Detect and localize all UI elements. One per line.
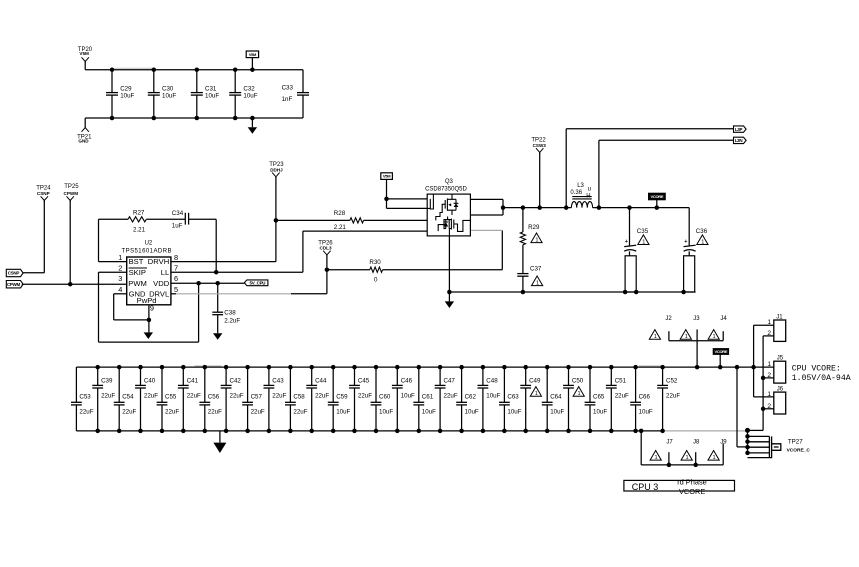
- svg-text:VCORE: VCORE: [651, 194, 664, 199]
- svg-text:V5M: V5M: [79, 51, 89, 56]
- svg-text:C46: C46: [401, 378, 413, 385]
- svg-text:1: 1: [713, 334, 716, 340]
- svg-text:C45: C45: [358, 378, 370, 385]
- svg-text:u: u: [588, 187, 591, 193]
- capacitor C50: [568, 367, 570, 385]
- svg-text:C53: C53: [79, 394, 91, 401]
- capacitor C48: [482, 367, 484, 385]
- svg-text:V5M: V5M: [383, 174, 391, 179]
- wire Q3 to switch node staple: [470, 198, 503, 200]
- svg-text:CPU 3: CPU 3: [632, 482, 659, 492]
- capacitor C39: [97, 367, 99, 385]
- svg-text:10uF: 10uF: [465, 408, 479, 415]
- svg-text:9: 9: [150, 303, 154, 312]
- svg-text:C39: C39: [101, 378, 113, 385]
- svg-text:1.05V/0A-94A: 1.05V/0A-94A: [792, 373, 851, 383]
- svg-text:22uF: 22uF: [79, 408, 93, 415]
- svg-text:C52: C52: [666, 378, 678, 385]
- svg-text:C61: C61: [422, 394, 434, 401]
- svg-text:1: 1: [701, 239, 704, 245]
- capacitor C66: [635, 367, 637, 402]
- capacitor C57: [247, 367, 249, 402]
- svg-text:1: 1: [686, 455, 689, 461]
- wire DRVL net: [171, 293, 176, 295]
- svg-text:2.21: 2.21: [334, 224, 347, 231]
- svg-text:C54: C54: [122, 394, 134, 401]
- svg-text:10uF: 10uF: [379, 408, 393, 415]
- svg-text:C49: C49: [529, 378, 541, 385]
- svg-text:22uF: 22uF: [666, 393, 680, 400]
- svg-text:22uF: 22uF: [208, 408, 222, 415]
- wire L3 sense minus: [598, 140, 600, 207]
- svg-text:22uF: 22uF: [615, 393, 629, 400]
- wire PwPd pin 9 stem: [148, 305, 150, 320]
- svg-text:7: 7: [174, 263, 178, 272]
- svg-text:L3: L3: [577, 183, 584, 189]
- power label VCORE mid: [649, 193, 666, 200]
- svg-text:10uF: 10uF: [243, 93, 257, 100]
- wire LL net: [171, 271, 303, 273]
- wire GND pin4 loop: [114, 293, 127, 295]
- svg-text:CSNP: CSNP: [37, 191, 50, 196]
- net label 5V_CPU: [244, 280, 268, 286]
- capacitor C61: [418, 367, 420, 402]
- ground symbol C38: [213, 333, 222, 340]
- svg-text:0.36: 0.36: [570, 190, 582, 196]
- svg-text:C59: C59: [336, 394, 348, 401]
- svg-text:TPS51601ADRB: TPS51601ADRB: [122, 248, 172, 254]
- power label V5M mid: [381, 173, 393, 180]
- svg-text:C60: C60: [379, 394, 391, 401]
- capacitor C59: [332, 367, 334, 402]
- svg-text:L3N: L3N: [735, 138, 743, 143]
- svg-text:1uF: 1uF: [172, 223, 183, 230]
- svg-text:1: 1: [536, 280, 539, 286]
- svg-text:R29: R29: [528, 224, 540, 231]
- net label CPWM: [6, 281, 23, 288]
- capacitor C58: [289, 367, 291, 402]
- svg-text:C33: C33: [282, 84, 294, 91]
- wire Q3 ground: [448, 236, 450, 292]
- capacitor C32: [234, 70, 236, 93]
- svg-text:2.2uF: 2.2uF: [224, 318, 240, 325]
- wire output ground bus: [76, 430, 663, 432]
- svg-text:J2: J2: [665, 316, 672, 322]
- svg-text:C63: C63: [507, 394, 519, 401]
- svg-text:C40: C40: [144, 378, 156, 385]
- svg-text:10uF: 10uF: [401, 393, 415, 400]
- svg-text:1: 1: [535, 237, 538, 243]
- svg-text:rd Phase: rd Phase: [677, 477, 707, 486]
- capacitor C51: [610, 367, 612, 385]
- wire power ground bus: [449, 291, 695, 293]
- wire SKIP tie to VDD: [99, 271, 127, 273]
- svg-text:1nF: 1nF: [282, 96, 293, 103]
- test point TP27 connector: [736, 367, 738, 447]
- svg-text:10uF: 10uF: [550, 408, 564, 415]
- svg-text:R28: R28: [334, 210, 346, 217]
- capacitor C56: [204, 367, 206, 402]
- svg-text:22uF: 22uF: [358, 393, 372, 400]
- svg-text:C29: C29: [120, 86, 132, 93]
- capacitor C53: [75, 367, 77, 402]
- svg-text:CSW3: CSW3: [533, 143, 547, 148]
- svg-text:VDD: VDD: [153, 279, 170, 288]
- svg-text:C57: C57: [251, 394, 263, 401]
- svg-text:DRVH: DRVH: [148, 257, 169, 266]
- svg-text:22uF: 22uF: [272, 393, 286, 400]
- svg-text:C44: C44: [315, 378, 327, 385]
- ground symbol cap bank: [219, 431, 221, 443]
- svg-text:C55: C55: [165, 394, 177, 401]
- svg-text:C42: C42: [230, 378, 242, 385]
- capacitor C38: [217, 283, 219, 312]
- wire GND bottom bus of top section: [85, 117, 303, 119]
- wire BST bootstrap loop: [99, 218, 129, 220]
- svg-text:C32: C32: [243, 86, 255, 93]
- svg-text:1: 1: [767, 361, 771, 368]
- svg-text:R30: R30: [369, 259, 381, 266]
- svg-text:22uF: 22uF: [251, 408, 265, 415]
- wire CSNP to TP24: [23, 272, 44, 274]
- capacitor C54: [118, 367, 120, 402]
- svg-text:TP27: TP27: [788, 438, 803, 445]
- svg-text:3: 3: [118, 274, 122, 283]
- svg-text:C43: C43: [272, 378, 284, 385]
- wire connector rails: [753, 325, 755, 397]
- svg-text:C37: C37: [530, 266, 542, 273]
- svg-text:VCORE: VCORE: [679, 487, 705, 496]
- svg-text:1: 1: [535, 391, 538, 397]
- ground symbol U2: [148, 320, 150, 333]
- svg-text:C34: C34: [172, 210, 184, 217]
- wire VCORE bus: [76, 366, 773, 368]
- capacitor C46: [396, 367, 398, 385]
- test point TP21: [82, 128, 89, 132]
- svg-text:C47: C47: [444, 378, 456, 385]
- svg-text:J8: J8: [693, 440, 700, 446]
- svg-text:CPWM: CPWM: [7, 282, 21, 287]
- net label L3N: [734, 137, 747, 143]
- wire DRVH to R28: [275, 177, 277, 262]
- capacitor C40: [140, 367, 142, 385]
- capacitor C47: [439, 367, 441, 385]
- svg-text:VCORE: VCORE: [715, 349, 728, 354]
- svg-text:1: 1: [578, 391, 581, 397]
- svg-text:10uF: 10uF: [422, 408, 436, 415]
- svg-text:R27: R27: [133, 210, 145, 217]
- capacitor C60: [375, 367, 377, 402]
- svg-text:10uF: 10uF: [162, 93, 176, 100]
- svg-text:10uF: 10uF: [336, 408, 350, 415]
- svg-text:LL: LL: [161, 268, 169, 277]
- svg-text:C56: C56: [208, 394, 220, 401]
- svg-text:1: 1: [642, 239, 645, 245]
- svg-text:C64: C64: [550, 394, 562, 401]
- wire R28 to Q3 gate: [364, 219, 428, 221]
- svg-text:J3: J3: [693, 316, 700, 322]
- capacitor C65: [589, 367, 591, 402]
- svg-text:C48: C48: [486, 378, 498, 385]
- wire PWM net: [22, 283, 127, 285]
- svg-text:CDL3: CDL3: [320, 246, 332, 251]
- svg-text:5V_CPU: 5V_CPU: [250, 281, 266, 286]
- svg-text:J7: J7: [666, 440, 673, 446]
- power label V5M top: [246, 51, 258, 58]
- wire VDD net: [171, 282, 244, 284]
- title block CPU 3rd Phase VCORE: [624, 480, 735, 491]
- capacitor C35: [629, 208, 631, 246]
- svg-text:1: 1: [712, 455, 715, 461]
- svg-text:10uF: 10uF: [507, 408, 521, 415]
- svg-text:PWM: PWM: [128, 279, 147, 288]
- capacitor C55: [161, 367, 163, 402]
- svg-text:8: 8: [174, 253, 178, 262]
- capacitor C33: [302, 70, 304, 93]
- svg-text:22uF: 22uF: [144, 393, 158, 400]
- svg-text:C66: C66: [639, 394, 651, 401]
- capacitor C62: [461, 367, 463, 402]
- svg-text:22uF: 22uF: [444, 393, 458, 400]
- wire J2 J3 J4 bracket: [669, 340, 723, 342]
- svg-text:10uF: 10uF: [593, 408, 607, 415]
- svg-text:2.21: 2.21: [133, 226, 146, 233]
- svg-text:C31: C31: [205, 86, 217, 93]
- power label VCORE bottom: [713, 349, 728, 355]
- ground symbol top section: [250, 116, 255, 121]
- capacitor C30: [153, 70, 155, 93]
- capacitor C31: [196, 70, 198, 93]
- svg-text:DDHJ: DDHJ: [270, 167, 283, 172]
- svg-text:C50: C50: [572, 378, 584, 385]
- capacitor C52: [662, 367, 664, 385]
- net label L3P: [734, 126, 747, 132]
- svg-text:C38: C38: [224, 309, 236, 316]
- svg-text:SKIP: SKIP: [129, 268, 146, 277]
- svg-text:TP25: TP25: [64, 184, 79, 190]
- ground symbol Q3: [448, 292, 450, 301]
- capacitor C29: [111, 70, 113, 93]
- svg-text:1: 1: [118, 253, 122, 262]
- svg-text:22uF: 22uF: [122, 408, 136, 415]
- svg-text:+: +: [625, 239, 628, 245]
- svg-text:22uF: 22uF: [315, 393, 329, 400]
- svg-text:BST: BST: [129, 257, 144, 266]
- svg-text:4: 4: [118, 285, 122, 294]
- wire inductor output node: [593, 207, 690, 209]
- svg-text:22uF: 22uF: [101, 393, 115, 400]
- wire switch node to inductor: [503, 207, 571, 209]
- svg-text:CPWM: CPWM: [64, 191, 79, 196]
- svg-text:10uF: 10uF: [486, 393, 500, 400]
- svg-text:1: 1: [685, 334, 688, 340]
- svg-text:10uF: 10uF: [120, 93, 134, 100]
- svg-text:10uF: 10uF: [205, 93, 219, 100]
- svg-text:CSD87350Q5D: CSD87350Q5D: [425, 186, 467, 192]
- svg-text:CPU VCORE:: CPU VCORE:: [792, 365, 841, 374]
- svg-text:C35: C35: [637, 228, 649, 235]
- svg-text:10uF: 10uF: [639, 408, 653, 415]
- svg-text:22uF: 22uF: [165, 408, 179, 415]
- wire L3 sense plus: [565, 129, 567, 208]
- svg-text:6: 6: [174, 274, 178, 283]
- svg-text:0: 0: [374, 276, 378, 283]
- svg-text:C36: C36: [696, 228, 708, 235]
- svg-text:2: 2: [118, 263, 122, 272]
- capacitor C41: [182, 367, 184, 385]
- wire V5M top bus: [84, 62, 86, 70]
- svg-text:C41: C41: [187, 378, 199, 385]
- svg-text:22uF: 22uF: [293, 408, 307, 415]
- svg-text:C30: C30: [162, 86, 174, 93]
- capacitor C42: [225, 367, 227, 385]
- svg-text:U2: U2: [145, 241, 153, 247]
- svg-text:C62: C62: [465, 394, 477, 401]
- capacitor C45: [354, 367, 356, 385]
- capacitor C43: [268, 367, 270, 385]
- svg-text:5: 5: [174, 285, 178, 294]
- svg-text:C51: C51: [615, 378, 627, 385]
- svg-text:C58: C58: [293, 394, 305, 401]
- capacitor C44: [311, 367, 313, 385]
- svg-text:L3P: L3P: [735, 127, 743, 132]
- svg-text:+: +: [684, 239, 687, 245]
- capacitor C49: [525, 367, 527, 385]
- net label CSNP: [6, 269, 23, 276]
- svg-text:22uF: 22uF: [187, 393, 201, 400]
- svg-text:J4: J4: [720, 316, 727, 322]
- capacitor C36: [688, 208, 690, 246]
- svg-text:C65: C65: [593, 394, 605, 401]
- svg-text:1: 1: [654, 334, 657, 340]
- wire R30 row to Q3 low gate: [327, 269, 370, 271]
- svg-text:Q3: Q3: [445, 179, 454, 185]
- svg-text:CSNP: CSNP: [8, 271, 20, 276]
- capacitor C63: [503, 367, 505, 402]
- svg-text:VCORE_C: VCORE_C: [787, 447, 811, 453]
- wire J7 J8 J9 bracket: [640, 431, 642, 465]
- capacitor C64: [546, 367, 548, 402]
- svg-text:22uF: 22uF: [230, 393, 244, 400]
- svg-text:GND: GND: [78, 139, 89, 144]
- svg-text:V5M: V5M: [249, 52, 257, 57]
- svg-text:1: 1: [655, 455, 658, 461]
- wire V5M to Q3 VIN: [386, 179, 388, 199]
